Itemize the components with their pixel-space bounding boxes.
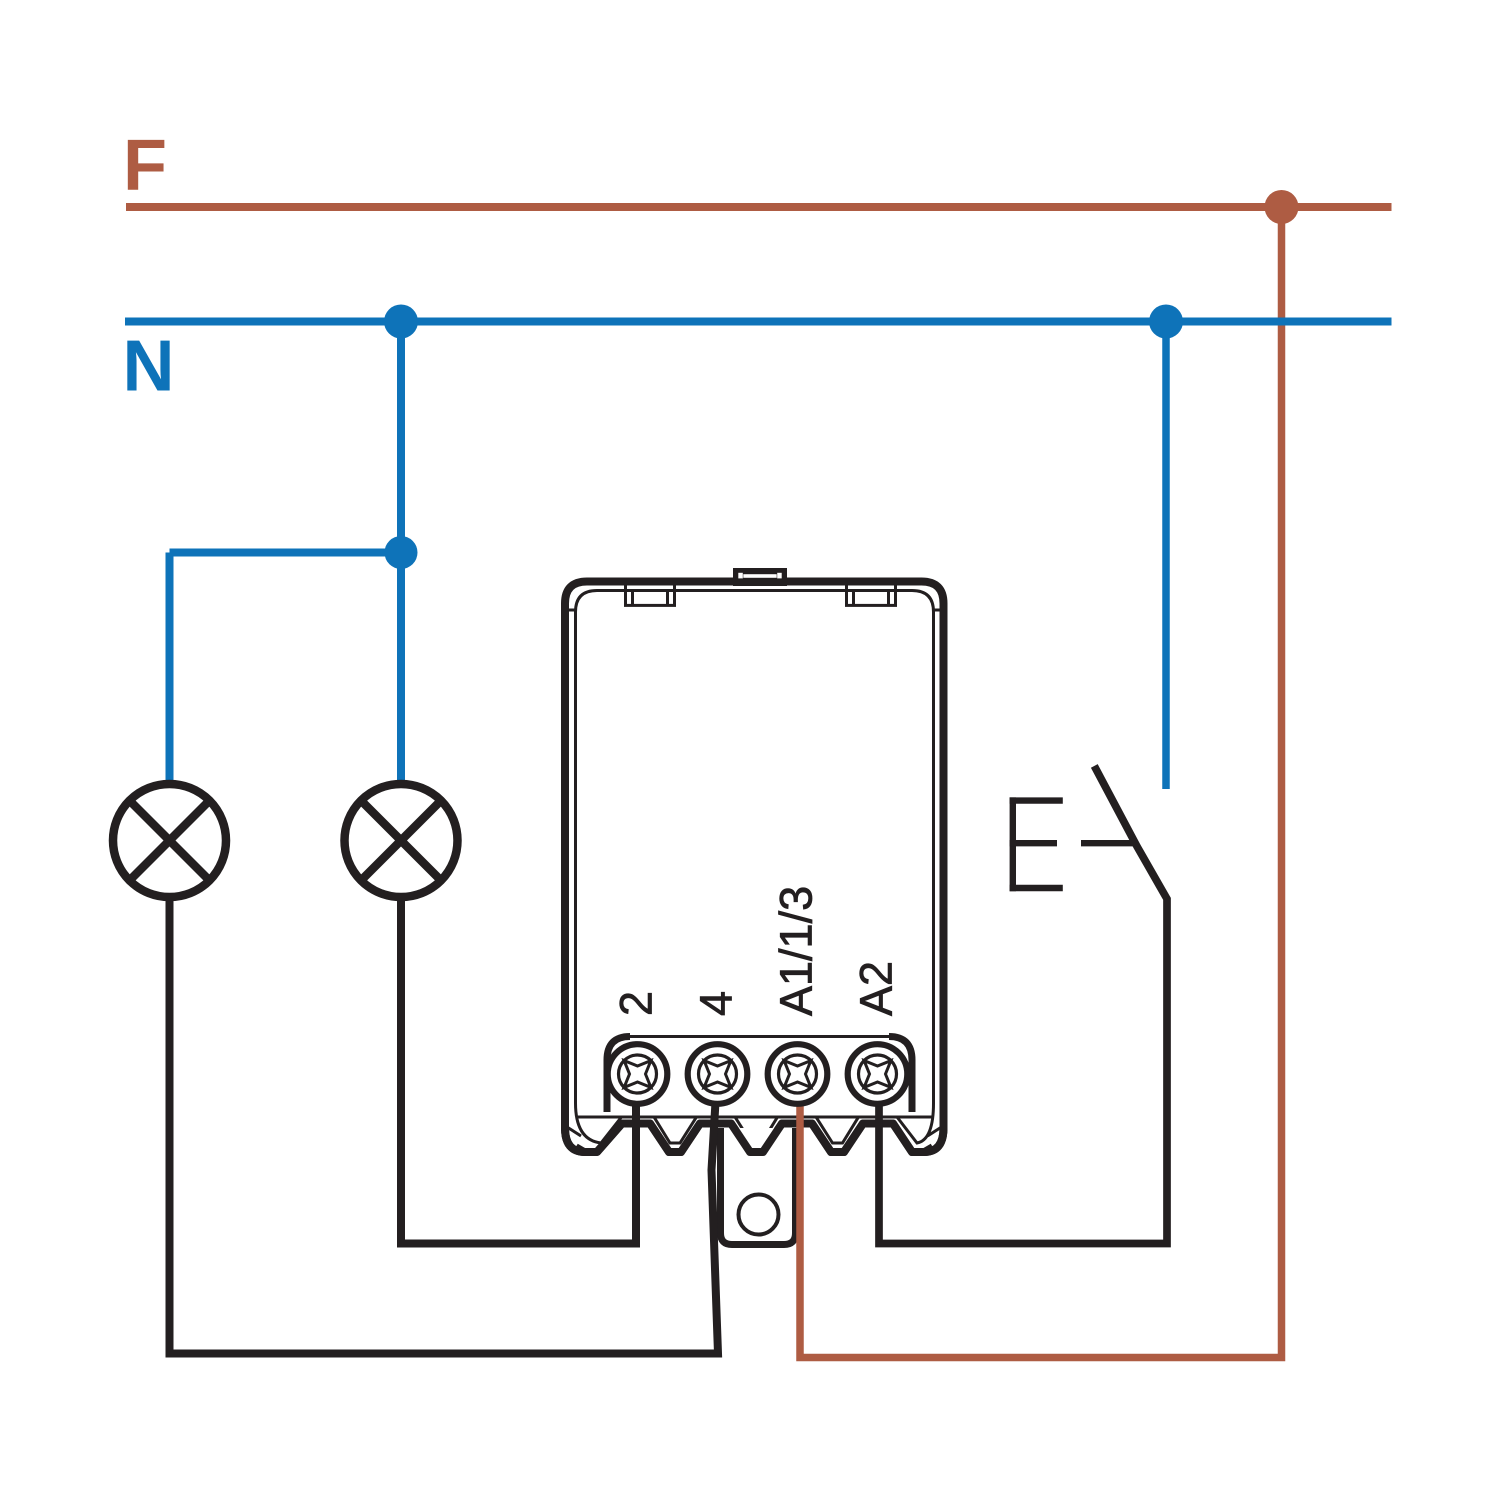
- wire terminal A2 to switch S1 and switch moving contact: [879, 766, 1167, 1244]
- switch S1 push-button actuator E: [1010, 797, 1063, 891]
- wire terminal A1/1/3 to phase F: [800, 207, 1282, 1358]
- node junction on F line: [1265, 190, 1299, 224]
- node N junction at lamps: [384, 305, 418, 339]
- svg-text:N: N: [123, 327, 175, 407]
- phase line F: [126, 203, 1392, 211]
- wire lamp E2 to terminal 2: [401, 895, 636, 1244]
- lamp E2: [345, 784, 458, 897]
- lamp E1: [113, 784, 226, 897]
- terminal A1/1/3 screw: [768, 1044, 828, 1104]
- wire down to lamp E1: [166, 553, 174, 786]
- svg-text:4: 4: [691, 991, 742, 1016]
- svg-text:A1/1/3: A1/1/3: [771, 886, 822, 1016]
- relay module U1 inner case line: [562, 591, 948, 1153]
- neutral line N: [125, 318, 1392, 326]
- svg-text:F: F: [123, 126, 167, 206]
- relay module U1 terminal strip: [607, 1037, 912, 1113]
- terminal 2 screw: [608, 1044, 668, 1104]
- node N junction at switch: [1149, 305, 1183, 339]
- terminal A2 screw: [848, 1044, 908, 1104]
- relay module U1 mounting tab: [721, 1128, 796, 1245]
- relay module U1 case outline: [565, 582, 944, 1153]
- relay module U1 top clip tab: [733, 568, 787, 586]
- wire down to lamp E2: [397, 553, 405, 786]
- node lamp branch junction: [385, 536, 418, 569]
- wire lamp E1 to terminal 4: [170, 895, 719, 1354]
- wire N to lamp junction: [397, 322, 405, 553]
- svg-text:2: 2: [611, 991, 662, 1016]
- relay module U1 right latch notch: [847, 582, 896, 605]
- terminal 4 screw: [688, 1044, 748, 1104]
- switch S1 fixed contact lead: [1081, 840, 1136, 846]
- wire N to switch S1: [1162, 322, 1170, 790]
- relay module U1 bottom sawtooth redraw: [565, 1124, 944, 1153]
- relay module U1 left latch notch: [626, 582, 675, 605]
- wire junction to lamp E1: [170, 549, 402, 557]
- svg-text:A2: A2: [851, 961, 902, 1016]
